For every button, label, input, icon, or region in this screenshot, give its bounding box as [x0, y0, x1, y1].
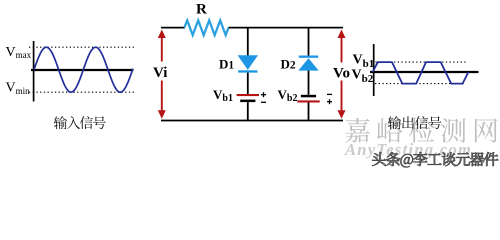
svg-text:Vb2: Vb2 — [352, 68, 374, 86]
voltage arrow Vo — [338, 30, 346, 119]
Vb2 clip level dotted line — [375, 83, 464, 85]
wire: D1 branch (diode to battery) — [247, 73, 249, 94]
svg-text:Vmax: Vmax — [6, 45, 32, 60]
wire: D2 branch (top rail to diode) — [308, 28, 310, 56]
battery Vb2 polarity signs — [327, 94, 332, 104]
output panel vertical axis — [373, 44, 375, 96]
battery Vb1 polarity signs — [261, 92, 266, 102]
Vmax dotted level line — [29, 46, 136, 48]
battery Vb1 (positive plate up) — [237, 94, 259, 102]
svg-text:D1: D1 — [219, 57, 234, 72]
svg-text:Vb1: Vb1 — [213, 87, 233, 104]
svg-text:Vi: Vi — [153, 65, 167, 81]
voltage arrow Vi — [158, 30, 166, 119]
wire: top rail left of R — [161, 27, 185, 29]
svg-text:AnyTesting.com: AnyTesting.com — [344, 140, 472, 159]
Vb1 clip level dotted line — [376, 61, 468, 63]
watermark 嘉峪检测网 — [345, 118, 497, 143]
caption 输入信号 — [54, 116, 106, 129]
wire: D1 branch (battery to bottom rail) — [247, 102, 249, 120]
resistor R — [184, 20, 228, 35]
byline 头条@李工谈元器件 — [372, 152, 498, 167]
output panel horizontal axis — [370, 71, 479, 73]
battery Vb2 (positive plate down) — [297, 95, 319, 103]
input panel horizontal axis — [31, 69, 134, 71]
wire: D2 branch (diode to battery) — [308, 71, 310, 95]
diode D1 (anode up, cathode down) — [238, 55, 258, 72]
input panel vertical axis — [33, 41, 35, 102]
svg-text:Vmin: Vmin — [6, 81, 31, 96]
svg-text:R: R — [196, 2, 207, 18]
diode D2 (cathode up, anode down) — [298, 56, 318, 71]
svg-text:D2: D2 — [281, 57, 296, 72]
svg-text:Vb2: Vb2 — [278, 87, 298, 104]
caption 输出信号 — [388, 116, 442, 129]
wire: top rail right of R — [229, 27, 344, 29]
Vmin dotted level line — [29, 91, 136, 93]
wire: D2 branch (battery to bottom rail) — [308, 103, 310, 121]
output clipped waveform — [373, 62, 469, 84]
svg-text:Vo: Vo — [333, 66, 350, 82]
wire: bottom rail — [161, 120, 343, 122]
input sine wave — [34, 47, 133, 92]
wire: D1 branch (top rail to diode) — [247, 28, 249, 56]
